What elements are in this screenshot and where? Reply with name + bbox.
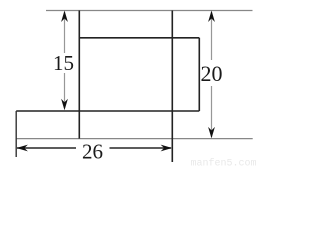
dimension 26 right arrowhead	[161, 145, 173, 152]
dimension 20 up arrowhead	[208, 11, 215, 23]
dimension 15 down arrowhead	[61, 99, 68, 111]
svg-text:26: 26	[82, 140, 103, 164]
dimension 20 down arrowhead	[208, 127, 215, 138]
dimension 26 left arrowhead	[16, 145, 28, 152]
dimension 26 line	[17, 147, 76, 149]
bottom extension line	[16, 138, 253, 140]
svg-text:15: 15	[53, 51, 74, 75]
inner rectangle right edge	[198, 38, 200, 111]
left vertical edge of upper rectangle	[78, 11, 80, 139]
right vertical line (shape edge + extension for 26)	[171, 11, 173, 163]
top extension line	[46, 10, 253, 12]
dimension 20 line	[211, 12, 213, 60]
middle horizontal edge	[16, 110, 199, 112]
dimension 15 line	[64, 12, 66, 53]
lower-left vertical edge + extension for 26	[15, 111, 17, 157]
inner rectangle top edge	[79, 37, 199, 39]
svg-text:20: 20	[201, 61, 223, 86]
dimension 15 up arrowhead	[61, 11, 68, 23]
svg-text:manfen5.com: manfen5.com	[191, 158, 257, 170]
